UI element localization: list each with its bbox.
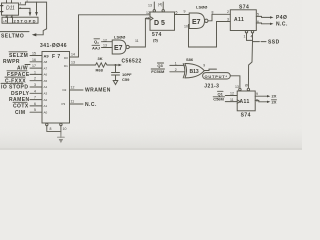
net FSPACE, F7 pin 1 (7, 70, 42, 78)
net DSPLY, F7 pin 4 (11, 89, 42, 97)
connector J21-3 OUTPUT* (203, 73, 231, 90)
wire D11 lower pin with down arrow (19, 8, 32, 16)
net Q0 (94, 39, 112, 45)
wire D5 Q pin 5 to E7 pin 9 (175, 10, 190, 15)
net COTX, F7 pin 6 (13, 102, 42, 110)
net RAMEN, F7 pin 7 (9, 96, 42, 104)
net IO STOPD, F7 pin 3 (1, 83, 42, 91)
net 2X (255, 94, 277, 99)
wire with down arrow into 25TOPD box (35, 2, 38, 16)
flip-flop A11 (S74) bottom (230, 84, 258, 119)
net AAJ (92, 45, 112, 50)
wire E7 pin 8 to A11 pin 2 (208, 14, 230, 20)
resistor R68 3K (94, 56, 109, 73)
scan noise (0, 0, 302, 150)
net 2X-bar (255, 99, 277, 104)
net N.C. (256, 22, 288, 28)
box 25TOPD (2, 17, 38, 23)
wire E7 pin 11 to D5 clock (129, 18, 150, 47)
wire resistor to C56522 arrow (109, 64, 122, 66)
F7 pin 14 (70, 53, 79, 58)
wire D11 bottom pins (7, 15, 12, 17)
ground (58, 137, 65, 143)
net SELTMO (0, 32, 29, 40)
xor gate B13 (S86) (175, 57, 205, 78)
net A/W, F7 pin 17 (17, 64, 42, 71)
net SSD (253, 40, 280, 46)
wire D11 pin to top rail (19, 0, 29, 5)
wire E7 pin 10 from B13 output (189, 25, 217, 48)
net Q3 (157, 63, 184, 68)
F7 pin 13 (70, 61, 95, 66)
wire A11 pin 3 from B13 (217, 22, 231, 48)
wire top rail (25, 2, 46, 29)
nand gate E7 (LS00) pins 9,10 out 8 (184, 5, 214, 29)
wire A11 pins 1,4 join (247, 33, 253, 41)
nand gate E7 (LS00) pins 12,13 out 11 (103, 35, 139, 55)
net SELZM, F7 pin 15 (9, 52, 42, 60)
net RWPR, F7 pin 16 (3, 58, 42, 65)
F7 pin 11, N.C. (70, 100, 97, 108)
F7 bottom pins 8 and 10 (46, 123, 67, 137)
ROM F7 341-0046 (40, 43, 70, 123)
paper shadow bottom edge (0, 128, 302, 150)
net FC56M (151, 69, 185, 74)
flip-flop D5 (S74) (146, 2, 175, 43)
net CIM, F7 pin 5 (15, 108, 42, 116)
wire OUTPUT to A11 pin 13 (230, 76, 240, 88)
ground (113, 81, 118, 85)
capacitor C59 10PF (112, 65, 133, 82)
wire arrow to SELTMO (32, 29, 47, 37)
flip-flop D11 (0, 1, 22, 20)
net C-FXXX, F7 pin 2 (5, 77, 42, 85)
wire B13 output pin 9 to vertical (203, 64, 216, 71)
wire SSD vertical to A11 bottom pin 10 (248, 40, 252, 88)
net P40 (256, 15, 287, 21)
flip-flop A11 (S74) top (227, 5, 259, 39)
F7 pin 12, net WRAMEN (70, 86, 111, 94)
net C56M (213, 97, 237, 102)
wire F7 pin 14 to D5 D input (79, 15, 151, 57)
net Q1 (218, 91, 238, 96)
